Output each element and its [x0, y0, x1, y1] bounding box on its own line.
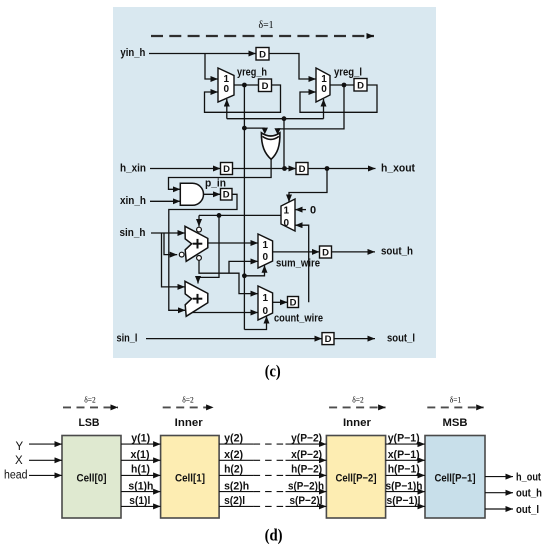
- svg-text:s(2)h: s(2)h: [224, 480, 249, 492]
- svg-text:0: 0: [284, 218, 290, 229]
- svg-text:D: D: [290, 298, 297, 309]
- mux U1 (yreg_h mux): [218, 68, 234, 102]
- wire count mux out to D: [273, 301, 288, 303]
- node junction select/h: [282, 116, 287, 121]
- svg-text:D: D: [262, 81, 269, 92]
- wire sin_h to adder1: [151, 232, 185, 234]
- svg-text:sin_l: sin_l: [117, 332, 138, 344]
- svg-text:D: D: [299, 164, 306, 175]
- svg-text:s(2)l: s(2)l: [224, 495, 245, 507]
- wire sin_l to D: [146, 338, 322, 340]
- wire adder1 out to sum mux in1: [208, 242, 258, 244]
- svg-text:y(P−1): y(P−1): [388, 432, 420, 444]
- AND gate U4: [180, 183, 203, 205]
- svg-text:sum_wire: sum_wire: [276, 257, 320, 269]
- svg-text:s(P−1)l: s(P−1)l: [387, 495, 421, 507]
- svg-text:0: 0: [263, 252, 269, 263]
- wire mux3 out to adders (line Q): [199, 214, 281, 216]
- svg-text:δ=1: δ=1: [259, 20, 274, 31]
- bubble adder1 bottom output: [197, 256, 202, 261]
- svg-text:sin_h: sin_h: [120, 227, 146, 239]
- Cell[P-1] box: [425, 436, 485, 519]
- wire yin_h to D: [149, 53, 256, 55]
- svg-text:Cell[1]: Cell[1]: [175, 473, 205, 485]
- dashed arrow 2: [163, 406, 214, 408]
- svg-text:head: head: [4, 470, 28, 482]
- svg-text:δ=1: δ=1: [450, 395, 462, 404]
- svg-text:yreg_l: yreg_l: [334, 67, 362, 79]
- svg-text:1: 1: [263, 293, 269, 304]
- wire sin_h branch to adder2 top-left input: [162, 233, 186, 287]
- svg-text:D: D: [322, 248, 329, 259]
- wires cell0 to cell1: [121, 444, 161, 506]
- wire D to sout_h: [332, 251, 376, 253]
- node junction mux1 out: [242, 83, 247, 88]
- svg-text:out_l: out_l: [516, 504, 539, 516]
- node junction sum sel: [242, 273, 247, 278]
- svg-text:Inner: Inner: [175, 417, 204, 429]
- svg-text:D: D: [357, 81, 364, 92]
- dashed arrow 1: [63, 406, 118, 408]
- svg-text:δ=2: δ=2: [84, 395, 96, 404]
- wire sum mux out to D: [273, 251, 320, 253]
- wire yreg_h net vertical bus: [243, 85, 245, 330]
- svg-text:D: D: [223, 164, 230, 175]
- svg-text:(c): (c): [265, 362, 281, 381]
- svg-text:(d): (d): [265, 526, 283, 545]
- svg-text:sout_h: sout_h: [381, 246, 413, 258]
- wire xor input A: [244, 127, 264, 129]
- svg-text:s(P−2)l: s(P−2)l: [290, 495, 323, 507]
- wire AND out to D p_in: [204, 193, 221, 195]
- wire xor out to AND gate top input: [169, 159, 272, 189]
- dashed timing arrow top: [151, 35, 374, 37]
- svg-text:h(1): h(1): [131, 464, 150, 476]
- svg-text:Cell[P−1]: Cell[P−1]: [435, 473, 476, 485]
- wire p_in loop to adder2 lower input: [169, 194, 237, 310]
- svg-text:x(P−2): x(P−2): [291, 449, 322, 461]
- svg-text:x(1): x(1): [131, 449, 150, 461]
- wire select line h to both mux selects: [227, 118, 324, 120]
- svg-text:Cell[0]: Cell[0]: [77, 473, 107, 485]
- wire sum sel: [244, 265, 264, 276]
- mux U8 (sum mux): [258, 234, 273, 268]
- svg-text:0: 0: [224, 84, 230, 95]
- svg-text:count_wire: count_wire: [274, 313, 323, 325]
- wire adder2 bottom out to count mux in0: [192, 312, 258, 314]
- wire count loop into mux3 lower input: [295, 225, 309, 302]
- wire sin_h branch to adder1 lower input (inverted): [164, 233, 177, 255]
- D flip-flop Dx2: [296, 163, 308, 175]
- D flip-flop sout_h: [320, 246, 332, 258]
- wire h tap down to h_xin line: [283, 119, 285, 169]
- svg-text:Inner: Inner: [343, 417, 372, 429]
- D flip-flop sin_l: [322, 333, 334, 345]
- svg-text:1: 1: [284, 206, 290, 217]
- svg-text:0: 0: [310, 205, 316, 217]
- svg-text:h(P−1): h(P−1): [388, 464, 420, 476]
- xor gate U3: [261, 133, 280, 160]
- svg-text:D: D: [223, 190, 230, 201]
- mux U2 (yreg_l mux): [316, 68, 330, 102]
- wire xin_h to AND: [150, 200, 180, 202]
- D flip-flop Dx1: [221, 163, 233, 175]
- svg-text:h(P−2): h(P−2): [291, 464, 322, 476]
- svg-text:0: 0: [263, 306, 269, 317]
- svg-text:h(2): h(2): [224, 464, 243, 476]
- wires cell1 to cellP-2 with dashed middle: [219, 444, 326, 506]
- wire mux2 out to D yreg_l: [330, 84, 354, 86]
- wire h_xin to D: [150, 168, 221, 170]
- svg-text:y(2): y(2): [224, 432, 243, 444]
- svg-text:Y: Y: [16, 441, 24, 453]
- svg-text:s(P−2)h: s(P−2)h: [288, 480, 324, 492]
- adder U6 (top): [185, 226, 208, 261]
- svg-text:xin_h: xin_h: [120, 195, 146, 207]
- D flip-flop yreg_l: [354, 79, 367, 92]
- svg-text:x(P−1): x(P−1): [388, 449, 420, 461]
- wire mux1 out to D yreg_h: [234, 84, 259, 86]
- adder U7 (bottom): [185, 281, 208, 316]
- mux U5 (h_xout/0 mux, left facing): [281, 199, 295, 231]
- svg-text:h_out: h_out: [516, 472, 541, 484]
- svg-text:y(P−2): y(P−2): [291, 432, 322, 444]
- constant 0 input: [295, 209, 306, 211]
- node junction line Q: [217, 213, 222, 218]
- svg-text:sout_l: sout_l: [387, 332, 415, 344]
- wire head in: [29, 474, 62, 476]
- svg-text:out_h: out_h: [516, 488, 542, 500]
- wire count sel: [244, 316, 266, 330]
- wire Dx1 to Dx2: [233, 168, 297, 170]
- bubble adder1 top input: [197, 227, 202, 232]
- wire xor input B from mux2 out: [278, 85, 344, 129]
- dashed arrow 4: [427, 406, 483, 408]
- node junction mux2 out: [342, 83, 347, 88]
- svg-text:s(P−1)h: s(P−1)h: [386, 480, 423, 492]
- D flip-flop p_in: [221, 189, 233, 201]
- svg-text:s(1)h: s(1)h: [128, 480, 153, 492]
- svg-text:D: D: [325, 334, 332, 345]
- mux U9 (count mux): [258, 286, 273, 320]
- wire h_xout branch down to mux3 select: [289, 169, 327, 203]
- svg-text:y(1): y(1): [131, 432, 150, 444]
- svg-text:X: X: [15, 455, 23, 467]
- svg-text:δ=2: δ=2: [352, 395, 364, 404]
- svg-text:1: 1: [263, 240, 269, 251]
- node junction h/xor: [282, 166, 287, 171]
- D flip-flop count: [288, 297, 299, 308]
- svg-text:yreg_h: yreg_h: [237, 67, 267, 79]
- svg-text:yin_h: yin_h: [120, 47, 145, 59]
- node junction xor tap: [242, 126, 247, 131]
- svg-text:0: 0: [321, 84, 327, 95]
- output wires: [485, 477, 513, 509]
- wire branch to adder2 top: [198, 215, 219, 283]
- bubble adder1 lower input: [179, 252, 184, 257]
- svg-text:h_xin: h_xin: [120, 162, 146, 174]
- Cell[1] box: [161, 436, 220, 519]
- svg-text:x(2): x(2): [224, 449, 243, 461]
- D flip-flop D1y: [256, 48, 269, 61]
- D flip-flop yreg_h: [259, 79, 272, 92]
- wire D1y out to mux2 in1: [269, 54, 316, 80]
- wire branch to sum mux in0: [229, 261, 258, 273]
- Cell[P-2] box: [326, 436, 385, 519]
- wire yin_h branch to mux1 in1: [205, 54, 218, 80]
- svg-text:s(1)l: s(1)l: [129, 495, 150, 507]
- wire yreg_h D feedback loop to mux1 in0: [205, 85, 281, 112]
- wire D to sout_l: [334, 338, 375, 340]
- wires cellP-2 to cellP-1: [386, 444, 425, 506]
- wire Dx2 to h_xout: [308, 168, 376, 170]
- wire Y in: [29, 443, 62, 445]
- wire yreg_l D feedback loop to mux2 in0: [300, 85, 377, 112]
- svg-text:h_xout: h_xout: [381, 162, 415, 174]
- svg-text:D: D: [259, 50, 266, 61]
- svg-text:p_in: p_in: [205, 178, 226, 190]
- wire adder1 bottom out to count mux in1: [199, 260, 258, 293]
- svg-text:MSB: MSB: [443, 417, 468, 429]
- svg-text:δ=2: δ=2: [182, 395, 194, 404]
- node junction h_xout branch: [325, 166, 330, 171]
- wire X in: [29, 459, 62, 461]
- svg-text:LSB: LSB: [79, 417, 100, 429]
- panel background (c): [113, 7, 436, 358]
- Cell[0] box: [62, 436, 121, 519]
- dashed arrow 3: [329, 406, 386, 408]
- svg-text:Cell[P−2]: Cell[P−2]: [336, 473, 377, 485]
